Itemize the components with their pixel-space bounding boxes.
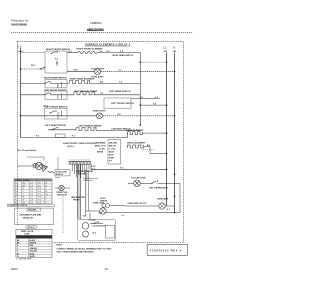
svg-text:C-3: C-3 [30, 185, 33, 187]
wire row4 to L2 [140, 104, 166, 106]
svg-text:L-1 BK: L-1 BK [109, 148, 116, 150]
svg-text:318545505 REV A: 318545505 REV A [150, 250, 182, 253]
resistor right rear element [70, 77, 141, 83]
svg-text:P-2: P-2 [15, 183, 18, 185]
wire L2 bus [166, 53, 168, 207]
junction collector row4 [140, 104, 142, 106]
svg-text:P-8: P-8 [15, 200, 18, 202]
svg-text:ORANGE: ORANGE [30, 247, 38, 250]
svg-text:C-7: C-7 [30, 197, 33, 199]
wire collector to L2 [140, 61, 166, 63]
svg-text:OVEN LAMP ON TOP: OVEN LAMP ON TOP [127, 202, 147, 205]
lamp fuse light FL2 [93, 111, 107, 119]
svg-text:P-5: P-5 [15, 191, 18, 193]
svg-text:0203: 0203 [11, 267, 18, 271]
svg-text:RIGHT REAR SWITCH: RIGHT REAR SWITCH [44, 76, 67, 79]
svg-text:OVEN LAMP: OVEN LAMP [157, 198, 169, 201]
note text [56, 245, 112, 254]
wire vertical collector [140, 53, 142, 126]
junction N row5 [174, 115, 176, 117]
svg-text:SWITCH: SWITCH [56, 174, 64, 176]
svg-text:GRN-BL-WT: GRN-BL-WT [23, 218, 34, 220]
schematic frame [17, 41, 183, 242]
wire long P-1 run [21, 133, 128, 138]
svg-text:T: T [45, 200, 46, 202]
svg-text:N-3: N-3 [167, 209, 170, 211]
table wire chart extra row [8, 204, 55, 207]
svg-text:BROIL TOD: BROIL TOD [95, 145, 106, 147]
svg-text:P-30: P-30 [91, 166, 95, 168]
svg-text:MOTOR: MOTOR [78, 173, 86, 175]
svg-text:BL: BL [45, 191, 47, 193]
svg-text:FEB500A: FEB500A [91, 21, 102, 25]
junction N oven lamp [174, 195, 176, 197]
junction L1 row5 [20, 115, 22, 117]
svg-text:P-9: P-9 [38, 185, 41, 187]
svg-text:BROIL ELEMENT: BROIL ELEMENT [127, 143, 145, 145]
connector vertical ladder P1 [78, 165, 81, 220]
svg-text:BLACK: BLACK [30, 239, 37, 242]
junction L2 broil [166, 153, 168, 155]
svg-text:5995538984: 5995538984 [11, 23, 27, 27]
junction N cooling branch [174, 174, 176, 176]
wire row5 fuse light to N [21, 114, 175, 116]
switch SW1 right front switch box [45, 49, 71, 73]
resistor right front element [67, 48, 103, 53]
wires EOC pins down [72, 164, 95, 181]
wire L1 to right front switch [21, 52, 45, 54]
svg-text:BR BA: BR BA [97, 150, 104, 153]
part number box [147, 244, 187, 255]
svg-text:C-2: C-2 [30, 183, 33, 185]
switch TOD thermostat [149, 180, 180, 212]
svg-text:DBL BRL: DBL BRL [109, 143, 118, 145]
svg-text:BROWN: BROWN [30, 243, 37, 245]
junction N row fuse [174, 71, 176, 73]
junction collector bottom [140, 124, 142, 126]
publication number label [11, 19, 29, 27]
node L1 tag [18, 50, 25, 53]
svg-text:P-8: P-8 [38, 183, 41, 185]
svg-text:N: N [173, 46, 175, 50]
svg-text:(EOC): (EOC) [67, 146, 73, 148]
motor cooling fan [128, 176, 152, 186]
svg-text:CONNECT WIRING AS ON ALL TER: CONNECT WIRING AS ON ALL TERMINALS NOT T… [56, 247, 112, 250]
svg-text:P-11: P-11 [38, 191, 41, 193]
connector EOC edge comb [68, 161, 91, 164]
svg-text:LEFT REAR SWITCH: LEFT REAR SWITCH [45, 124, 67, 127]
junction L2 row4 [166, 104, 168, 106]
svg-text:ONLY OVEN ELEMENT AND GROUNDS.: ONLY OVEN ELEMENT AND GROUNDS. [56, 251, 94, 254]
svg-text:YELLOW: YELLOW [30, 251, 38, 253]
junction collector-row1 [140, 61, 142, 63]
switch door lock switch box [55, 170, 70, 178]
junction L2 eoc [166, 169, 168, 171]
svg-text:TOD THERMOSTAT: TOD THERMOSTAT [149, 187, 169, 190]
junction L1 row1 [20, 68, 22, 70]
switch right rear switch [21, 76, 69, 88]
wire stub into lock assembly [89, 213, 91, 220]
lamp fuse light FL1 [91, 68, 105, 78]
label temperature probe [71, 196, 86, 201]
svg-text:P-14: P-14 [38, 200, 42, 202]
table wire chart 1 [14, 179, 52, 205]
svg-text:No. 5 Latch Switch: No. 5 Latch Switch [18, 149, 37, 152]
svg-text:BK R: BK R [109, 154, 114, 156]
wire N bus [174, 53, 176, 214]
svg-text:SWITCH: SWITCH [100, 200, 108, 202]
svg-text:BA W: BA W [109, 150, 114, 153]
svg-text:P-4: P-4 [15, 188, 18, 190]
note grounding box [15, 208, 54, 229]
svg-text:P-7: P-7 [15, 197, 18, 199]
svg-text:NOTE:: NOTE: [56, 245, 63, 247]
svg-text:LEFT FRONT SWITCH: LEFT FRONT SWITCH [111, 103, 134, 105]
svg-text:L2: L2 [163, 46, 167, 50]
wire bracket bits right of ladder [83, 178, 98, 180]
module door lock assembly [78, 220, 116, 241]
wire lock run N-2 [99, 213, 180, 217]
switch left front switch box [104, 97, 160, 109]
svg-text:1 = NEUTRAL WIRE: 1 = NEUTRAL WIRE [16, 258, 32, 261]
svg-text:C-6: C-6 [30, 194, 33, 196]
svg-text:C-4: C-4 [30, 188, 33, 190]
svg-text:LOCK MOTOR: LOCK MOTOR [93, 226, 107, 228]
svg-text:P-10: P-10 [38, 188, 42, 190]
svg-text:L 1: L 1 [18, 44, 22, 48]
svg-text:C-5: C-5 [30, 191, 33, 193]
lamp oven lamp [125, 198, 175, 210]
switch door latch assembly [17, 149, 58, 173]
svg-text:L-3: L-3 [122, 215, 125, 217]
svg-text:P-14 2BL 1W C-14 P-15: P-14 2BL 1W C-14 P-15 [9, 204, 27, 207]
svg-text:ELECTRONIC OVEN CONTROL: ELECTRONIC OVEN CONTROL [63, 143, 96, 145]
svg-text:BL: BL [23, 197, 25, 199]
svg-text:N-3: N-3 [83, 216, 86, 218]
title WIRING DIAGRAM [87, 27, 105, 31]
wire mid vertical [85, 170, 87, 216]
svg-text:FAN MOTOR: FAN MOTOR [57, 193, 68, 196]
svg-text:C-8: C-8 [30, 200, 33, 202]
junction L2 top [166, 61, 168, 63]
lamp oven light [83, 202, 170, 217]
wire L1 bus [20, 48, 22, 138]
svg-text:3T5 B-C: 3T5 B-C [28, 227, 35, 229]
svg-text:FUSE LIGHT: FUSE LIGHT [93, 111, 107, 113]
wire EOC to L2 run [91, 164, 166, 170]
node N tag [173, 50, 177, 52]
svg-text:COOLING FAN: COOLING FAN [131, 176, 146, 179]
switch left rear switch [21, 90, 74, 100]
heater broil element [127, 143, 166, 154]
junction N lock [174, 212, 176, 214]
svg-text:RIGHT REAR ELEMENT: RIGHT REAR ELEMENT [70, 77, 95, 80]
svg-text:P-3: P-3 [15, 185, 18, 187]
svg-text:W BR: W BR [109, 157, 115, 159]
svg-text:COLOR CODE: COLOR CODE [19, 237, 32, 239]
svg-text:TIME BAKE: TIME BAKE [95, 142, 106, 145]
svg-text:GROUNDED PLATE WIRE: GROUNDED PLATE WIRE [20, 214, 43, 217]
svg-text:HI-LIMIT: HI-LIMIT [89, 220, 97, 222]
resistor left rear element [74, 90, 140, 95]
motor convection fan [55, 170, 94, 233]
switch left rear switch row5 [45, 124, 77, 131]
switch left front switch box row4 [45, 107, 68, 119]
table wire color code [16, 229, 52, 260]
svg-text:PROBE: PROBE [73, 199, 80, 201]
svg-text:L1 BR: L1 BR [99, 148, 105, 150]
switch oven door light switch [100, 198, 125, 207]
switch hi-limit [89, 220, 103, 224]
connector inline on P-1 run [56, 134, 66, 138]
svg-text:P-13: P-13 [38, 197, 42, 199]
module EOC relay table [95, 140, 121, 165]
svg-text:LEFT REAR SWITCH: LEFT REAR SWITCH [109, 90, 131, 93]
svg-text:BL: BL [17, 253, 19, 255]
svg-text:LEFT REAR ELEMENT: LEFT REAR ELEMENT [78, 124, 102, 127]
svg-text:BRL TD: BRL TD [109, 145, 117, 147]
wire fuse light row to N [67, 70, 175, 72]
wire row1 to vertical collector [97, 51, 140, 57]
heater bake element [126, 129, 167, 135]
svg-text:GROUND: GROUND [28, 210, 37, 212]
node L2 tag [164, 50, 168, 52]
module EOC electronic oven control [63, 143, 96, 148]
resistor left rear element 2 [76, 124, 140, 130]
svg-text:N-2: N-2 [99, 213, 102, 215]
svg-text:P-12: P-12 [38, 194, 42, 196]
svg-text:10: 10 [105, 267, 109, 271]
svg-text:P WIRE C P WIRE: P WIRE C P WIRE [15, 180, 30, 182]
svg-text:P-6: P-6 [15, 194, 18, 196]
switch SP-1 contact [21, 65, 46, 69]
header separator line [11, 32, 193, 34]
section title SURFACE ELEMENTS-C RELAY 1 [85, 43, 131, 46]
svg-text:RIGHT REAR SWITCH: RIGHT REAR SWITCH [112, 54, 133, 57]
